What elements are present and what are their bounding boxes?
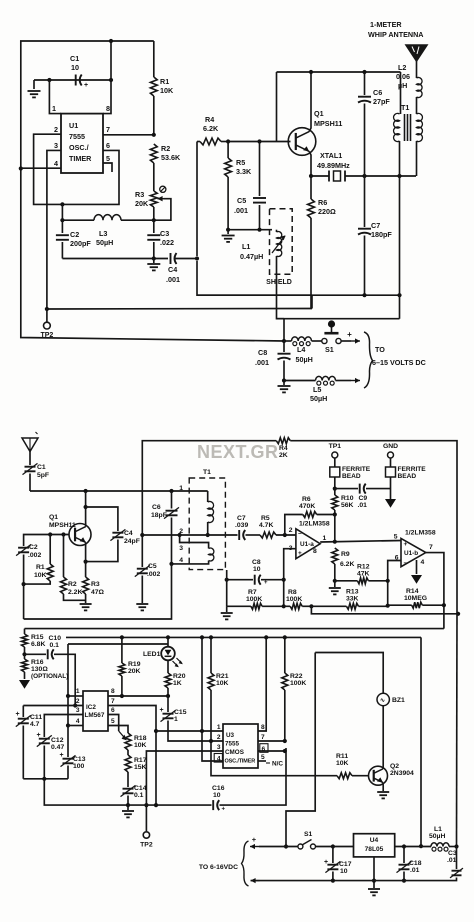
capacitor C16 [212, 748, 286, 813]
svg-text:4.7: 4.7 [30, 721, 40, 728]
svg-text:Q2: Q2 [390, 763, 399, 770]
node riser on U4 output line [419, 844, 423, 848]
resistor R3 rx [83, 577, 105, 603]
resistor R2 rx [61, 535, 86, 601]
svg-text:.01: .01 [358, 502, 368, 509]
transformer T1 rx dashed box [189, 469, 225, 570]
node L1 output corner [454, 844, 458, 848]
wire pin 3 of U1 down to TP2 rail [47, 141, 61, 309]
resistor R9 [332, 515, 355, 581]
node C18 tap [402, 844, 406, 848]
node S1 feed [284, 844, 288, 848]
svg-text:6: 6 [262, 746, 266, 753]
wire lower line TP2 to C16 [128, 804, 212, 806]
watermark NEXT.GR [197, 442, 279, 462]
svg-text:S1: S1 [304, 831, 313, 838]
node C17 on return [331, 879, 335, 883]
svg-text:4.7K: 4.7K [259, 522, 273, 529]
node pin7 column end [154, 803, 158, 807]
svg-text:6.2K: 6.2K [340, 561, 354, 568]
svg-text:C2: C2 [29, 544, 38, 551]
node C2/R1 bottom [22, 582, 26, 586]
svg-text:5: 5 [111, 718, 115, 725]
op IC U1 7555 OSC./TIMER box [61, 114, 103, 173]
node C14 ground junction [126, 803, 130, 807]
ground below C3 line [147, 259, 160, 271]
node pin2 jog [178, 533, 182, 537]
capacitor C14 [121, 785, 147, 805]
wire top line to U3 pin1/pin4 [202, 637, 223, 761]
inductor L5 return [284, 376, 360, 403]
svg-text:C11: C11 [30, 714, 42, 721]
svg-text:N/C: N/C [272, 761, 283, 768]
svg-text:1: 1 [217, 724, 221, 731]
wire C4 node up to R4 and down to ground rail A [197, 142, 312, 296]
node pin6 on column [283, 749, 287, 753]
svg-text:+: + [36, 732, 40, 739]
svg-text:.039: .039 [235, 522, 248, 529]
svg-text:+: + [159, 707, 163, 714]
wire pin 4 of U1 to left border [21, 159, 61, 168]
svg-text:3: 3 [217, 744, 221, 751]
node L5 tap on C8 column [282, 378, 286, 382]
resistor R4 [197, 115, 228, 145]
wire tank rail y72 [277, 72, 401, 142]
wire U1-b output pin7 down to bottom stage [426, 553, 444, 629]
svg-text:.001: .001 [234, 206, 248, 215]
node L4/C8 feed [282, 339, 286, 343]
capacitor C9 [335, 484, 391, 509]
resistor R21 [208, 637, 229, 741]
svg-text:R12: R12 [357, 564, 370, 571]
ferrite bead TP1 [330, 466, 371, 489]
svg-text:TP2: TP2 [140, 842, 153, 849]
node pin2/pin6/C2 junction [60, 202, 64, 206]
svg-text:R7: R7 [248, 589, 257, 596]
svg-text:50µH: 50µH [96, 238, 113, 247]
svg-text:WHIP ANTENNA: WHIP ANTENNA [368, 30, 424, 39]
wire pin3 output rail to TP2 [47, 308, 312, 311]
node R19 on pin8 line [120, 694, 124, 698]
svg-text:100K: 100K [246, 596, 262, 603]
svg-text:R3: R3 [135, 190, 144, 199]
svg-text:8: 8 [111, 688, 115, 695]
svg-text:.01: .01 [410, 867, 420, 874]
wire IC2 pin6 wiper [108, 707, 127, 740]
svg-text:1/2LM358: 1/2LM358 [299, 521, 330, 528]
svg-text:2.2K: 2.2K [68, 589, 82, 596]
ground below R9 [329, 581, 341, 595]
svg-text:8: 8 [106, 104, 110, 113]
svg-text:5: 5 [106, 154, 110, 163]
resistor R11 [336, 753, 369, 779]
svg-text:7: 7 [111, 698, 115, 705]
node C8 left column [225, 578, 229, 582]
wire Q1 collector to tank rail [309, 72, 311, 132]
wire supply rail of decoder stage [66, 636, 421, 638]
svg-text:C1: C1 [70, 54, 79, 63]
svg-text:1-METER: 1-METER [370, 20, 402, 29]
svg-text:.001: .001 [166, 275, 180, 284]
switch S1 pushbutton [322, 320, 341, 354]
wire IC2 pin3 line [44, 707, 83, 737]
wire Q2 emitter ground [377, 782, 389, 798]
resistor R5 rx [259, 515, 296, 538]
ground below left column [221, 606, 233, 619]
node U3 col1 [200, 729, 204, 733]
ground below R3 rx [80, 604, 92, 610]
U3 pin labels left [214, 724, 222, 763]
wire R21 column to C16 line [211, 741, 337, 776]
wire Q1 rx base bias line [24, 535, 69, 547]
T1 rx upper winding pins 1-2 [179, 485, 213, 535]
wire pin 1 of U1 [49, 80, 61, 114]
node C6/pin4 junction [169, 562, 173, 566]
svg-text:R21: R21 [216, 673, 229, 680]
inductor L4 [284, 337, 322, 364]
wire pin1 riser lower to pin4 [67, 696, 69, 726]
potentiometer R18 [125, 733, 147, 755]
svg-text:10K: 10K [134, 742, 147, 749]
svg-text:10K: 10K [336, 760, 349, 767]
svg-text:C12: C12 [51, 737, 64, 744]
svg-text:3.3K: 3.3K [236, 167, 252, 176]
wire pin 6 of U1 to pins2-6 net [62, 141, 119, 204]
capacitor C7 rx inline [235, 515, 260, 540]
node collector on rail [309, 70, 313, 74]
svg-text:10K: 10K [216, 680, 229, 687]
svg-text:2: 2 [217, 734, 221, 741]
svg-text:1: 1 [52, 104, 56, 113]
svg-text:CMOS: CMOS [225, 749, 244, 756]
svg-text:R15: R15 [31, 634, 44, 641]
switch S1 rx [298, 831, 316, 849]
wire C12 column to lower line [44, 779, 128, 805]
ground arrow below R16 [19, 680, 30, 689]
svg-text:T1: T1 [401, 103, 409, 112]
node U3 pin8 top [264, 635, 268, 639]
wire ground rail A [197, 295, 400, 308]
node L3/C2 junction [60, 218, 64, 222]
svg-text:NEXT.GR: NEXT.GR [197, 442, 279, 462]
svg-text:15K: 15K [134, 764, 147, 771]
svg-text:R6: R6 [302, 496, 311, 503]
svg-text:R11: R11 [336, 753, 348, 760]
node C18 on return [402, 879, 406, 883]
capacitor C3 rx [251, 847, 463, 881]
wire left bias column [226, 570, 228, 606]
node pin4-border junction [19, 166, 23, 170]
svg-text:C6: C6 [152, 504, 161, 511]
svg-text:220Ω: 220Ω [318, 207, 336, 216]
ground below C14 [122, 805, 134, 817]
svg-text:4: 4 [179, 557, 183, 564]
node pin1 riser [66, 694, 70, 698]
wire cap bottom bus [23, 778, 68, 780]
svg-text:1: 1 [174, 716, 178, 723]
capacitor C6 rx [151, 491, 179, 564]
wire xtal right to T1 secondary bottom [365, 175, 417, 177]
svg-text:R18: R18 [134, 735, 147, 742]
node pin1 riser junction [47, 78, 51, 82]
capacitor C11 [15, 706, 42, 779]
resistor R12 [335, 564, 388, 584]
svg-text:100K: 100K [290, 680, 306, 687]
node R10/R6 junction [333, 512, 337, 516]
svg-text:TO: TO [375, 345, 385, 354]
capacitor C4 rx loop [86, 507, 140, 562]
antenna 1-meter whip [368, 20, 427, 78]
svg-text:1: 1 [323, 535, 327, 542]
svg-text:20K: 20K [128, 668, 141, 675]
svg-text:1K: 1K [173, 680, 182, 687]
wire Q1 rx collector [85, 491, 87, 527]
node R1 top [48, 532, 52, 536]
resistor R19 [119, 637, 141, 696]
inductor L2 [396, 63, 422, 98]
svg-text:+: + [404, 541, 408, 548]
wire IC2 pin8 line [108, 688, 168, 696]
node R21 bottom on pin2 line [209, 739, 213, 743]
resistor R1 [150, 41, 174, 135]
svg-text:U1-b: U1-b [404, 550, 418, 557]
wire pin 5 of U1 stub [103, 154, 112, 172]
svg-text:MPSH11: MPSH11 [314, 119, 342, 128]
svg-text:5pF: 5pF [37, 472, 49, 479]
node T1 primary bottom on y176 [397, 174, 401, 178]
svg-text:33K: 33K [346, 596, 359, 603]
svg-text:78L05: 78L05 [365, 846, 384, 853]
wire supply drop to S1 [286, 653, 315, 847]
node R4/R5 [226, 139, 230, 143]
node C10 on IC2 pin2 line [73, 703, 77, 707]
svg-text:L1: L1 [242, 242, 250, 251]
wire pin 7 of U1 to R1/R2 node [103, 125, 154, 135]
svg-text:R10: R10 [341, 495, 354, 502]
svg-text:SHIELD: SHIELD [266, 279, 292, 286]
wire U3 pin6 [258, 744, 285, 753]
svg-text:180pF: 180pF [371, 230, 392, 239]
svg-text:R9: R9 [341, 551, 350, 558]
wire IC2 pin4 [68, 718, 83, 726]
node IC2 pin4 junction [66, 723, 70, 727]
variable inductor L1 in shield [240, 230, 286, 261]
svg-text:C14: C14 [134, 785, 147, 792]
svg-text:7555: 7555 [69, 132, 85, 141]
wire U3 pin8 [258, 637, 266, 731]
svg-text:U1: U1 [69, 121, 78, 130]
svg-text:R20: R20 [173, 673, 186, 680]
capacitor C8 rx [227, 559, 284, 586]
node C5 bottom [257, 228, 261, 232]
svg-text:6–15 VOLTS DC: 6–15 VOLTS DC [372, 358, 426, 367]
svg-text:R2: R2 [161, 144, 170, 153]
svg-text:50µH: 50µH [429, 833, 445, 840]
svg-text:0.47µH: 0.47µH [240, 252, 263, 261]
svg-text:27pF: 27pF [373, 97, 390, 106]
resistor R14 feedback [388, 588, 444, 608]
node C3 ground tee [152, 256, 156, 260]
node R19 top [120, 635, 124, 639]
node R14/pin7 column [442, 603, 446, 607]
svg-text:FERRITE: FERRITE [342, 466, 371, 473]
resistor R5 [225, 142, 252, 230]
test point TP2 rx [140, 832, 153, 849]
node T1 line on rail A [397, 293, 401, 297]
svg-text:C5: C5 [148, 563, 157, 570]
wire IC2 pin1 feed from LED node [68, 644, 168, 696]
svg-text:0.06: 0.06 [396, 72, 410, 81]
wire Q2 collector to BZ1 [382, 706, 384, 770]
wire signal line from U1-b to R15 [25, 629, 444, 634]
svg-text:IC2: IC2 [86, 704, 96, 711]
svg-text:10: 10 [253, 566, 261, 573]
transistor Q2 2N3904 [369, 763, 415, 785]
svg-text:C13: C13 [73, 756, 86, 763]
svg-text:C5: C5 [237, 196, 246, 205]
wire pin4 line to ground bus [24, 564, 172, 619]
svg-text:C7: C7 [237, 515, 246, 522]
svg-text:4: 4 [421, 559, 425, 566]
wire U3 pin5 N/C [258, 754, 283, 768]
wire U1-a pin3 input [284, 549, 296, 607]
node R20/pin8/C15 [166, 694, 170, 698]
wire IC2 pin1 [68, 688, 83, 696]
svg-text:5: 5 [394, 534, 398, 541]
svg-text:8: 8 [313, 548, 317, 555]
node TP1 bead / C9 [333, 487, 337, 491]
wire output tap to supply return line [311, 606, 458, 614]
node U4 gnd on return [372, 879, 376, 883]
svg-text:C18: C18 [409, 860, 422, 867]
svg-text:3: 3 [76, 707, 80, 714]
capacitor C13 [59, 726, 85, 779]
svg-text:.001: .001 [255, 358, 269, 367]
svg-text:2: 2 [76, 698, 80, 705]
svg-text:U3: U3 [226, 732, 235, 739]
wire U1-a output to U1-b pin5 [320, 541, 401, 543]
svg-text:6: 6 [106, 141, 110, 150]
svg-text:6: 6 [111, 707, 115, 714]
svg-text:R5: R5 [236, 158, 245, 167]
svg-text:R2: R2 [68, 581, 77, 588]
svg-text:100: 100 [73, 763, 85, 770]
svg-text:L2: L2 [398, 63, 406, 72]
node LED top [166, 635, 170, 639]
svg-text:TP1: TP1 [329, 443, 342, 450]
wire Q1 rx emitter [85, 542, 87, 577]
battery brace TO 6-16VDC [199, 841, 249, 886]
svg-text:4: 4 [76, 718, 80, 725]
IC2 LM567 box [83, 691, 108, 731]
resistor R13 [311, 589, 387, 610]
svg-text:L4: L4 [297, 345, 305, 354]
svg-text:R17: R17 [134, 757, 147, 764]
svg-text:BEAD: BEAD [342, 473, 361, 480]
svg-text:R4: R4 [279, 445, 288, 452]
node C6 top on rail [362, 70, 366, 74]
svg-text:49.89MHz: 49.89MHz [317, 161, 350, 170]
node R7/R8 junction [282, 604, 286, 608]
svg-text:2: 2 [289, 527, 293, 534]
svg-text:R8: R8 [288, 589, 297, 596]
capacitor C3 [147, 220, 174, 258]
wire T1rx pin1 entry [207, 491, 209, 502]
wire U4 ground pin [368, 857, 380, 896]
node C4 right junction [195, 256, 199, 260]
svg-text:.002: .002 [147, 571, 160, 578]
capacitor C17 [324, 847, 352, 881]
resistor R15 [22, 634, 46, 654]
node TP2 junction [45, 307, 49, 311]
svg-text:Q1: Q1 [314, 109, 324, 118]
resistor R22 column [282, 637, 307, 741]
shield dashed box [266, 209, 292, 286]
crystal XTAL1 [311, 151, 365, 182]
svg-text:R1: R1 [36, 564, 45, 571]
svg-text:1: 1 [179, 485, 183, 492]
capacitor C1 rx [23, 463, 50, 491]
resistor R7 [227, 589, 284, 609]
node R5/R6 junction [283, 533, 287, 537]
svg-text:S1: S1 [325, 345, 334, 354]
svg-text:4: 4 [54, 159, 58, 168]
node pin6/R13 [386, 604, 390, 608]
T1 rx lower winding pins 3-4 [172, 535, 214, 564]
transformer T1 output [394, 72, 423, 319]
svg-text:C8: C8 [252, 559, 261, 566]
svg-text:10: 10 [213, 792, 221, 799]
wire S1 to U4 [316, 846, 354, 848]
svg-text:C10: C10 [49, 635, 62, 642]
svg-text:R4: R4 [205, 115, 214, 124]
wire pin2/C7 signal line [142, 534, 237, 536]
svg-text:C8: C8 [258, 348, 267, 357]
node C4 top tee [84, 505, 88, 509]
svg-text:10: 10 [71, 63, 79, 72]
wire battery return arrow [251, 878, 260, 883]
svg-text:2: 2 [54, 125, 58, 134]
node C5 riser / pin2 line [140, 533, 144, 537]
node C1-right / pin8 riser [109, 39, 113, 82]
svg-text:0.47: 0.47 [51, 744, 64, 751]
capacitor C18 [397, 847, 422, 881]
wire Q1 emitter down [309, 151, 311, 176]
node R21 top [209, 635, 213, 639]
wire shield input rail [228, 229, 272, 231]
wire U3 pin1 line [156, 730, 223, 732]
svg-text:R16: R16 [31, 659, 44, 666]
svg-text:LM567: LM567 [85, 712, 105, 719]
node R3 bottom / L3 line [152, 218, 156, 222]
svg-text:C3: C3 [160, 229, 169, 238]
svg-text:10MEG: 10MEG [404, 595, 427, 602]
svg-text:6.2K: 6.2K [203, 124, 219, 133]
svg-text:µH: µH [398, 81, 407, 90]
svg-text:TIMER: TIMER [69, 154, 92, 163]
U1-b pin4 ground [411, 560, 422, 584]
test point TP2 [40, 309, 53, 339]
wire L1 bottom lead to feed rail [277, 256, 400, 319]
wire IC2 pin5 to R18 [108, 718, 128, 733]
resistor R17 [125, 755, 147, 787]
resistor R10 [332, 489, 354, 515]
svg-text:18pF: 18pF [151, 512, 167, 519]
svg-text:C4: C4 [168, 265, 177, 274]
svg-text:8: 8 [261, 724, 265, 731]
resistor R2 [150, 144, 181, 191]
capacitor C10 [25, 635, 76, 706]
